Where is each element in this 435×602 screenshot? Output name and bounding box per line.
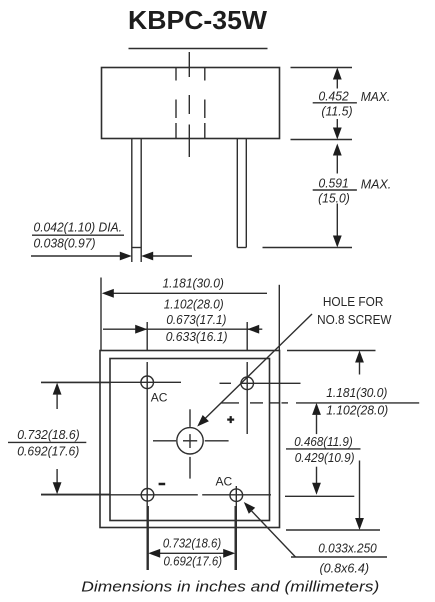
svg-text:0.591: 0.591 <box>319 176 349 191</box>
top width dimension line 1.181 <box>102 289 267 298</box>
top-left terminal row line <box>41 381 181 383</box>
top width extension line left <box>100 278 102 351</box>
terminal blade leader <box>244 502 387 557</box>
fraction bar <box>313 102 357 104</box>
extension line body bottom <box>291 139 353 141</box>
shared reference line <box>296 402 419 404</box>
diameter dimension right arrow <box>141 252 192 261</box>
bottom terminal row line <box>41 494 271 496</box>
svg-text:0.468(11.9): 0.468(11.9) <box>294 434 352 449</box>
fraction bar <box>286 448 361 450</box>
svg-text:(11.5): (11.5) <box>321 103 352 118</box>
terminal circle top-left <box>141 376 154 389</box>
svg-text:0.038(0.97): 0.038(0.97) <box>34 236 96 251</box>
svg-text:0.673(17.1): 0.673(17.1) <box>166 312 226 327</box>
svg-text:0.429(10.9): 0.429(10.9) <box>295 450 355 465</box>
diameter dimension left arrow <box>31 252 132 261</box>
bottom spacing extension left <box>147 506 149 570</box>
right height dimension 1.181 <box>355 351 364 531</box>
svg-text:0.692(17.6): 0.692(17.6) <box>164 554 223 569</box>
left lead <box>132 139 141 263</box>
svg-text:MAX.: MAX. <box>361 177 392 192</box>
left terminal column center line <box>146 322 148 570</box>
side view body outline <box>102 68 280 139</box>
label + (positive terminal) <box>227 416 234 423</box>
terminal spacing dimension 0.673 <box>103 325 262 334</box>
hidden hole dashed line right <box>204 68 206 138</box>
label - (negative terminal) <box>159 483 166 486</box>
top width extension line right <box>278 285 280 351</box>
svg-text:0.452: 0.452 <box>319 89 350 104</box>
extension line lead bottom <box>263 247 353 249</box>
svg-text:0.633(16.1): 0.633(16.1) <box>166 329 228 344</box>
center line of side view <box>188 52 190 157</box>
terminal circle bottom-right <box>230 489 243 502</box>
top view inner square <box>110 359 270 521</box>
svg-text:NO.8 SCREW: NO.8 SCREW <box>317 312 392 327</box>
svg-text:1.181(30.0): 1.181(30.0) <box>162 276 224 291</box>
lead length dimension 0.591 <box>333 144 342 248</box>
body height dimension 0.452 <box>333 68 342 140</box>
top-right terminal row dashes <box>220 382 301 384</box>
svg-text:0.033x.250: 0.033x.250 <box>318 541 377 556</box>
svg-text:Dimensions in inches and (mill: Dimensions in inches and (millimeters) <box>81 579 379 596</box>
svg-text:HOLE FOR: HOLE FOR <box>323 294 384 309</box>
mounting hole center mark <box>153 409 229 478</box>
positive terminal offset dimension 0.468 <box>312 403 321 495</box>
fraction bar <box>8 441 86 443</box>
svg-text:0.732(18.6): 0.732(18.6) <box>163 536 221 551</box>
svg-text:(15.0): (15.0) <box>318 190 350 205</box>
svg-text:1.181(30.0): 1.181(30.0) <box>326 385 387 400</box>
svg-text:0.042(1.10) DIA.: 0.042(1.10) DIA. <box>34 220 123 235</box>
terminal circle top-right <box>241 377 254 390</box>
extension line at square bottom <box>286 529 380 531</box>
leader line to mounting hole <box>201 314 313 423</box>
title underline <box>129 48 268 50</box>
svg-text:1.102(28.0): 1.102(28.0) <box>326 403 388 418</box>
bottom spacing dimension 0.732 <box>148 549 235 558</box>
dashed reference line at positive terminal level <box>221 402 288 404</box>
right lead <box>237 139 246 248</box>
right height extension top <box>287 350 376 352</box>
svg-text:1.102(28.0): 1.102(28.0) <box>164 296 224 311</box>
svg-text:0.732(18.6): 0.732(18.6) <box>17 427 79 442</box>
fraction bar <box>313 189 357 191</box>
left height dimension 0.732/0.692 <box>41 383 110 495</box>
svg-text:MAX.: MAX. <box>361 89 391 104</box>
svg-text:KBPC-35W: KBPC-35W <box>128 5 267 35</box>
terminal circle bottom-left <box>141 489 154 502</box>
bottom-right terminal column line <box>235 486 237 570</box>
fraction bar <box>32 234 124 236</box>
svg-text:0.692(17.6): 0.692(17.6) <box>17 443 79 458</box>
extension line at bottom terminal level <box>285 495 354 497</box>
top view outer square <box>100 351 280 528</box>
bottom spacing extension right <box>234 506 236 570</box>
hidden hole dashed line left <box>175 68 177 138</box>
right terminal column center line <box>246 322 248 434</box>
extension line body top <box>291 67 353 69</box>
svg-text:(0.8x6.4): (0.8x6.4) <box>320 561 370 576</box>
svg-text:AC: AC <box>216 474 233 488</box>
svg-text:AC: AC <box>151 391 168 405</box>
mounting hole circle <box>177 428 203 454</box>
